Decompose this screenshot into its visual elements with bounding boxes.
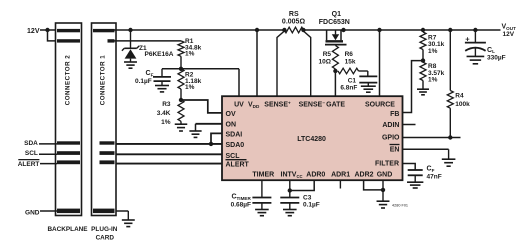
label R7 bbox=[428, 34, 445, 55]
svg-text:FDC653N: FDC653N bbox=[319, 19, 350, 26]
pin label UV bbox=[234, 102, 244, 109]
svg-text:1%: 1% bbox=[428, 48, 438, 55]
ground below CF bbox=[155, 86, 169, 92]
svg-text:FB: FB bbox=[390, 111, 399, 118]
pin label SCL bbox=[226, 153, 241, 160]
svg-text:FILTER: FILTER bbox=[375, 161, 399, 168]
pin label SENSE- bbox=[299, 101, 326, 109]
ground below C1 bbox=[361, 86, 376, 92]
label CL 330uF bbox=[487, 47, 506, 62]
node R7-R8 junction bbox=[421, 58, 425, 62]
node R4 tap on rail bbox=[448, 28, 452, 32]
svg-text:330µF: 330µF bbox=[487, 54, 506, 61]
svg-text:TIMER: TIMER bbox=[252, 172, 274, 179]
pin label TIMER bbox=[252, 172, 274, 179]
label GND bbox=[25, 209, 40, 216]
pin label ADR2 bbox=[354, 172, 373, 179]
svg-text:ON: ON bbox=[226, 121, 237, 128]
node INTVCC junction bbox=[288, 188, 292, 192]
svg-text:BACKPLANE: BACKPLANE bbox=[47, 226, 88, 233]
op-amp U1 LTC4280 body bbox=[222, 96, 403, 180]
node SDA junction bbox=[209, 142, 213, 146]
ground below CTIMER bbox=[255, 210, 269, 216]
label R3 bbox=[157, 101, 171, 126]
wire EN pin to ground bbox=[403, 149, 449, 159]
resistor R1 bbox=[178, 41, 184, 69]
svg-text:R3: R3 bbox=[162, 101, 171, 108]
ground below R3 bbox=[175, 124, 188, 131]
svg-text:1%: 1% bbox=[185, 51, 195, 58]
svg-text:0.68µF: 0.68µF bbox=[231, 201, 251, 208]
label Z1 bbox=[139, 45, 174, 58]
connector 2 contact pins bbox=[57, 29, 80, 213]
pin label ON bbox=[226, 121, 237, 128]
node Z1 tap on rail bbox=[128, 28, 132, 32]
pin label OV bbox=[226, 111, 236, 118]
12V input label bbox=[27, 28, 40, 35]
ground at EN pin bbox=[442, 159, 456, 166]
label CONNECTOR 2 bbox=[65, 55, 72, 105]
connector 1 contact pins bbox=[93, 29, 115, 213]
capacitor C3 0.1uF bbox=[280, 198, 299, 210]
ground below CL bbox=[467, 56, 485, 63]
node SOURCE tap on rail bbox=[377, 28, 381, 32]
svg-text:R6: R6 bbox=[345, 51, 354, 58]
resistor RS bbox=[284, 27, 303, 33]
svg-text:SDAI: SDAI bbox=[226, 131, 243, 138]
label R1 bbox=[185, 38, 202, 58]
wire GATE pin riser bbox=[334, 71, 336, 97]
wire FILTER pin bbox=[403, 164, 416, 171]
label CF 47nF bbox=[427, 166, 442, 181]
svg-text:ADR1: ADR1 bbox=[331, 172, 350, 179]
wire 12V to connector 2 second pin bbox=[48, 30, 58, 41]
wire 12V to connector 2 top pin bbox=[40, 29, 57, 31]
wire TIMER pin riser bbox=[261, 180, 263, 197]
svg-text:100k: 100k bbox=[455, 101, 470, 108]
svg-text:SCL: SCL bbox=[25, 150, 38, 157]
connector CONNECTOR 1 body bbox=[92, 23, 117, 216]
wire SDAI jog bbox=[211, 133, 222, 144]
wire GND to connector 2 bbox=[40, 210, 57, 212]
wire UV node bbox=[162, 68, 239, 70]
svg-text:P6KE16A: P6KE16A bbox=[145, 51, 174, 58]
svg-text:R4: R4 bbox=[455, 93, 464, 100]
capacitor C1 6.8nF bbox=[359, 71, 377, 86]
svg-text:C3: C3 bbox=[303, 194, 312, 201]
wire connector 1 short pin to R1 bbox=[115, 40, 182, 42]
svg-text:ALERT: ALERT bbox=[226, 162, 250, 169]
label CTIMER 0.68uF bbox=[231, 194, 252, 209]
zener Z1 bbox=[122, 30, 139, 62]
wire SCL to connector 2 bbox=[39, 153, 57, 155]
svg-text:GND: GND bbox=[377, 172, 393, 179]
resistor R5 bbox=[332, 46, 338, 72]
wire SDA to SDA0 pin bbox=[116, 143, 222, 145]
svg-text:CTIMER: CTIMER bbox=[231, 194, 251, 201]
wire SOURCE pin riser bbox=[379, 30, 381, 97]
pin label SOURCE bbox=[365, 102, 395, 109]
svg-text:10Ω: 10Ω bbox=[319, 58, 331, 65]
wire VDD pin riser bbox=[256, 30, 258, 97]
ground at ON pin bbox=[189, 131, 201, 137]
svg-text:6.8nF: 6.8nF bbox=[340, 84, 357, 91]
pin label SENSE+ bbox=[264, 101, 291, 109]
svg-text:CL: CL bbox=[487, 47, 495, 54]
pin label EN bbox=[390, 145, 400, 154]
label Q1 FDC653N bbox=[319, 11, 350, 26]
pin label SDAI bbox=[226, 131, 243, 138]
wire card GND bbox=[116, 211, 128, 220]
ground below Z1 bbox=[124, 62, 137, 68]
ground below R8 bbox=[417, 89, 429, 95]
svg-text:4280 F01: 4280 F01 bbox=[392, 204, 408, 208]
svg-text:12V: 12V bbox=[503, 31, 515, 38]
svg-text:RS: RS bbox=[289, 11, 299, 18]
node 12V junction bbox=[45, 28, 49, 32]
wire ADR0 to INTVCC bbox=[290, 180, 314, 190]
wire GPIO pin bbox=[403, 137, 461, 139]
resistor R2 bbox=[178, 69, 184, 100]
node GPIO-R4 junction bbox=[448, 135, 452, 139]
svg-text:CONNECTOR 1: CONNECTOR 1 bbox=[100, 55, 107, 105]
node R5-R6-GATE junction bbox=[333, 69, 337, 73]
wire FB pin path bbox=[403, 61, 424, 113]
pin label FB bbox=[390, 111, 399, 118]
svg-text:PLUG-IN: PLUG-IN bbox=[91, 226, 118, 233]
svg-text:3.4K: 3.4K bbox=[157, 110, 171, 117]
resistor R6 bbox=[338, 68, 368, 74]
svg-text:OV: OV bbox=[226, 111, 236, 118]
connector CONNECTOR 2 body bbox=[56, 23, 82, 216]
ground plug-in card bbox=[122, 220, 135, 227]
label C3 0.1uF bbox=[303, 194, 320, 208]
svg-text:SCL: SCL bbox=[226, 153, 241, 160]
label RS 0.005ohm bbox=[282, 11, 306, 25]
pin label INTVCC bbox=[281, 172, 303, 179]
pin label GPIO bbox=[382, 134, 400, 141]
svg-text:R5: R5 bbox=[323, 51, 332, 58]
label PLUG-IN CARD bbox=[91, 226, 118, 241]
svg-text:CONNECTOR 2: CONNECTOR 2 bbox=[65, 55, 72, 105]
node ADR2-GND junction bbox=[381, 188, 385, 192]
ground below filter cap bbox=[407, 182, 423, 188]
wire main 12V rail right segment bbox=[303, 29, 500, 31]
pin label VDD bbox=[248, 102, 260, 109]
svg-text:ADR0: ADR0 bbox=[306, 172, 325, 179]
wire ADR1 stub bbox=[339, 180, 341, 188]
label CONNECTOR 1 bbox=[100, 55, 107, 105]
wire ADR2 to GND pin bbox=[364, 180, 383, 190]
capacitor CF 0.1uF bbox=[153, 69, 171, 86]
label R4 100k bbox=[455, 93, 470, 109]
capacitor CTIMER 0.68uF bbox=[252, 198, 271, 210]
pin label GND bbox=[377, 172, 393, 179]
svg-text:0.005Ω: 0.005Ω bbox=[282, 18, 306, 25]
svg-text:LTC4280: LTC4280 bbox=[297, 136, 326, 143]
wire GND pin riser bbox=[382, 180, 384, 201]
ground below GND pin bbox=[377, 201, 390, 208]
svg-text:SENSE−: SENSE− bbox=[299, 101, 326, 109]
wire ALERT to ALERT pin bbox=[116, 163, 222, 165]
resistor R8 bbox=[420, 62, 426, 89]
svg-text:GPIO: GPIO bbox=[382, 134, 400, 141]
label R6 15k bbox=[345, 51, 356, 66]
wire main 12V rail left segment bbox=[115, 29, 285, 31]
pin label ADR1 bbox=[331, 172, 350, 179]
svg-text:SENSE+: SENSE+ bbox=[264, 101, 291, 109]
label R8 bbox=[428, 63, 445, 84]
svg-text:0.1µF: 0.1µF bbox=[303, 201, 320, 208]
svg-text:ALERT: ALERT bbox=[18, 161, 40, 168]
svg-text:CF: CF bbox=[427, 166, 435, 173]
label R2 bbox=[185, 72, 202, 92]
pin label ADR0 bbox=[306, 172, 325, 179]
node RS left bbox=[282, 28, 286, 32]
wire ON pin to ground bbox=[196, 124, 223, 131]
svg-text:UV: UV bbox=[234, 102, 244, 109]
wire INTVCC pin riser bbox=[289, 180, 291, 197]
node R1-R2 junction bbox=[179, 67, 183, 71]
pin label ALERT bbox=[226, 160, 250, 169]
node R7 tap on rail bbox=[421, 28, 425, 32]
svg-text:Q1: Q1 bbox=[332, 11, 341, 18]
label C1 6.8nF bbox=[340, 78, 357, 92]
resistor R4 bbox=[447, 30, 453, 138]
svg-text:GATE: GATE bbox=[326, 102, 345, 109]
svg-text:ADR2: ADR2 bbox=[354, 172, 373, 179]
transistor Q1 bbox=[325, 30, 347, 45]
svg-text:SDA: SDA bbox=[24, 140, 38, 147]
wire OV pin path bbox=[181, 100, 222, 113]
wire SENSE+ drop bbox=[277, 31, 284, 97]
ground below C3 bbox=[283, 210, 297, 216]
svg-text:1%: 1% bbox=[161, 119, 171, 126]
pin label GATE bbox=[326, 102, 345, 109]
svg-text:SOURCE: SOURCE bbox=[365, 102, 395, 109]
capacitor CL 330uF bbox=[465, 30, 486, 56]
svg-text:+: + bbox=[465, 34, 470, 43]
pin label ADIN bbox=[382, 122, 399, 129]
svg-text:ADIN: ADIN bbox=[382, 122, 399, 129]
wire ADIN stub bbox=[403, 124, 416, 126]
wire SCL to SCL pin bbox=[116, 153, 222, 155]
svg-text:SDA0: SDA0 bbox=[226, 142, 245, 149]
svg-text:VOUT: VOUT bbox=[502, 24, 517, 31]
pin label SDA0 bbox=[226, 142, 245, 149]
capacitor CF 47nF bbox=[408, 170, 423, 182]
svg-text:CARD: CARD bbox=[96, 234, 115, 241]
node CL tap on rail bbox=[473, 28, 477, 32]
label + polarity bbox=[465, 34, 470, 43]
svg-text:CF: CF bbox=[146, 70, 154, 77]
svg-text:EN: EN bbox=[390, 146, 400, 153]
svg-text:1%: 1% bbox=[428, 77, 438, 84]
wire SENSE- drop bbox=[303, 31, 310, 97]
label BACKPLANE bbox=[47, 226, 88, 233]
svg-text:47nF: 47nF bbox=[427, 173, 442, 180]
node R2-R3 junction bbox=[179, 98, 183, 102]
node Q1 source on rail bbox=[341, 28, 345, 32]
label CF 0.1uF bbox=[135, 70, 154, 85]
node RS right bbox=[301, 28, 305, 32]
wire UV pin riser bbox=[238, 69, 240, 97]
node VDD tap on rail bbox=[255, 28, 259, 32]
label SDA bbox=[24, 140, 38, 147]
label ALERT bbox=[18, 160, 40, 168]
label R5 10ohm bbox=[319, 51, 332, 66]
svg-text:GND: GND bbox=[25, 209, 40, 216]
wire SDA to connector 2 bbox=[39, 143, 57, 145]
svg-text:1%: 1% bbox=[185, 84, 195, 91]
svg-text:15k: 15k bbox=[345, 58, 356, 65]
resistor R3 bbox=[178, 100, 184, 124]
label VOUT 12V bbox=[502, 24, 517, 38]
svg-text:0.1µF: 0.1µF bbox=[135, 78, 152, 85]
svg-text:12V: 12V bbox=[27, 28, 40, 35]
label 4280 F01 bbox=[392, 204, 408, 208]
label SCL bbox=[25, 150, 38, 157]
pin label FILTER bbox=[375, 161, 399, 168]
wire ALERT to connector 2 bbox=[40, 163, 57, 165]
resistor R7 bbox=[420, 32, 426, 61]
